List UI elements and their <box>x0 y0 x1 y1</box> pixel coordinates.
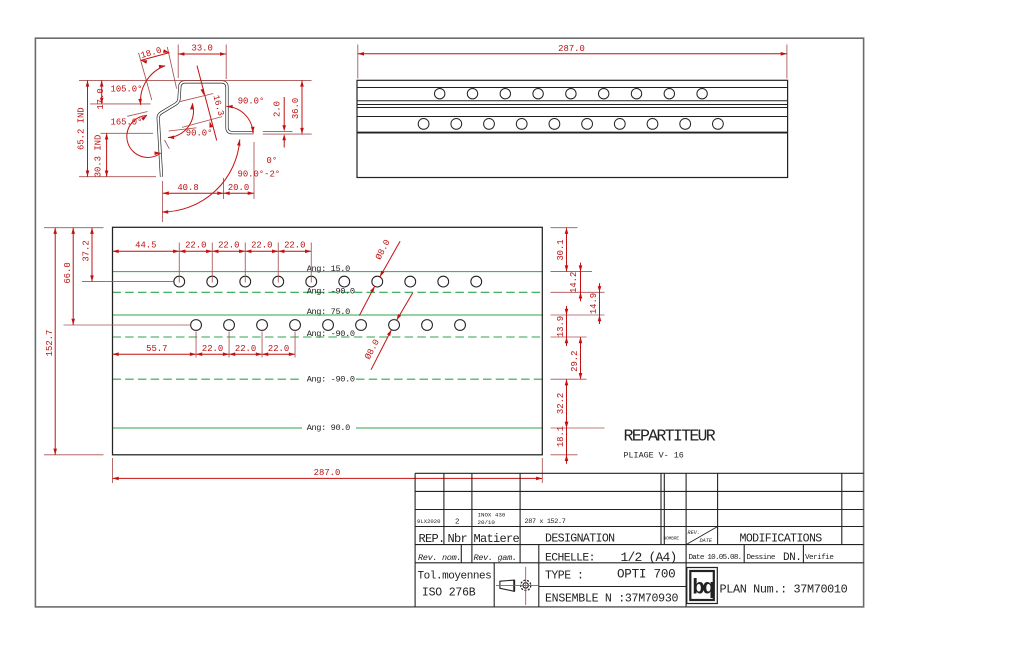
svg-text:90.0°: 90.0° <box>186 128 213 138</box>
svg-text:ENSEMBLE N :37M70930: ENSEMBLE N :37M70930 <box>545 593 678 606</box>
svg-text:Ang: 90.0: Ang: 90.0 <box>307 423 350 433</box>
svg-text:30.1: 30.1 <box>556 239 566 260</box>
svg-text:22.0: 22.0 <box>251 241 272 251</box>
svg-text:0°: 0° <box>267 156 278 166</box>
svg-text:152.7: 152.7 <box>45 330 55 357</box>
svg-text:bq: bq <box>692 578 714 601</box>
svg-text:2: 2 <box>455 519 460 527</box>
svg-text:287.0: 287.0 <box>314 468 341 478</box>
svg-text:29.2: 29.2 <box>570 351 580 372</box>
svg-text:165.0°: 165.0° <box>111 118 143 128</box>
svg-text:13.9: 13.9 <box>556 316 566 337</box>
svg-text:65.2 IND: 65.2 IND <box>77 107 87 150</box>
svg-text:DN.: DN. <box>783 552 801 564</box>
svg-text:Nbr: Nbr <box>448 532 468 546</box>
svg-text:105.0°: 105.0° <box>111 85 143 95</box>
svg-text:Verifie: Verifie <box>805 554 834 562</box>
svg-text:17.0: 17.0 <box>96 88 106 109</box>
svg-text:Dessine: Dessine <box>747 554 776 562</box>
svg-text:22.0: 22.0 <box>185 241 206 251</box>
svg-text:18.1: 18.1 <box>556 426 566 447</box>
svg-text:REP.: REP. <box>419 532 445 546</box>
svg-text:22.0: 22.0 <box>284 241 305 251</box>
svg-text:44.5: 44.5 <box>135 241 156 251</box>
svg-text:INOX 430: INOX 430 <box>478 512 506 519</box>
svg-text:Ang: -90.0: Ang: -90.0 <box>307 287 355 297</box>
svg-text:Ang: -90.0: Ang: -90.0 <box>307 375 355 385</box>
svg-text:Rev. nom.: Rev. nom. <box>418 553 461 563</box>
svg-text:22.0: 22.0 <box>202 344 223 354</box>
svg-text:287 x 152.7: 287 x 152.7 <box>525 518 566 526</box>
svg-text:Ang: 15.0: Ang: 15.0 <box>307 264 350 274</box>
svg-text:22.0: 22.0 <box>268 344 289 354</box>
svg-text:PLAN Num.: 37M70010: PLAN Num.: 37M70010 <box>720 583 848 597</box>
svg-text:9LX2020: 9LX2020 <box>417 518 441 525</box>
svg-text:55.7: 55.7 <box>146 344 167 354</box>
svg-text:Tol.moyennes: Tol.moyennes <box>418 571 492 583</box>
svg-text:Date 10.05.08.: Date 10.05.08. <box>689 554 742 562</box>
svg-text:OPTI 700: OPTI 700 <box>617 568 675 582</box>
svg-text:1/2 (A4): 1/2 (A4) <box>621 550 677 565</box>
svg-text:22.0: 22.0 <box>218 241 239 251</box>
svg-text:Ang: 75.0: Ang: 75.0 <box>307 307 350 317</box>
svg-text:14.2: 14.2 <box>569 272 579 293</box>
svg-text:40.8: 40.8 <box>177 183 198 193</box>
svg-text:TYPE :: TYPE : <box>545 570 583 583</box>
svg-text:66.0: 66.0 <box>63 262 73 283</box>
svg-text:20/10: 20/10 <box>478 519 496 526</box>
svg-text:22.0: 22.0 <box>235 344 256 354</box>
svg-text:DATE: DATE <box>700 538 713 544</box>
svg-text:20.0: 20.0 <box>228 183 249 193</box>
svg-text:33.0: 33.0 <box>192 44 213 54</box>
svg-text:ISO 276B: ISO 276B <box>422 587 476 600</box>
svg-text:DESIGNATION: DESIGNATION <box>545 533 615 546</box>
svg-text:Ang: -90.0: Ang: -90.0 <box>307 329 355 339</box>
svg-text:NOMBRE: NOMBRE <box>664 537 680 542</box>
svg-text:ECHELLE:: ECHELLE: <box>545 552 595 564</box>
svg-text:REPARTITEUR: REPARTITEUR <box>624 426 716 445</box>
svg-text:37.2: 37.2 <box>82 240 92 261</box>
svg-text:Rev. gam.: Rev. gam. <box>474 553 517 563</box>
svg-text:30.3 IND: 30.3 IND <box>93 135 103 178</box>
svg-text:REV.: REV. <box>688 530 700 536</box>
svg-text:2.0: 2.0 <box>272 101 282 117</box>
svg-text:Matiere: Matiere <box>474 532 520 546</box>
svg-text:36.0: 36.0 <box>291 98 301 119</box>
svg-text:287.0: 287.0 <box>558 44 585 54</box>
svg-text:90.0°-2°: 90.0°-2° <box>238 169 281 179</box>
svg-text:90.0°: 90.0° <box>238 97 265 107</box>
svg-text:MODIFICATIONS: MODIFICATIONS <box>740 532 823 545</box>
svg-text:14.9: 14.9 <box>589 293 599 314</box>
svg-text:PLIAGE V- 16: PLIAGE V- 16 <box>624 450 684 460</box>
svg-text:32.2: 32.2 <box>556 393 566 414</box>
